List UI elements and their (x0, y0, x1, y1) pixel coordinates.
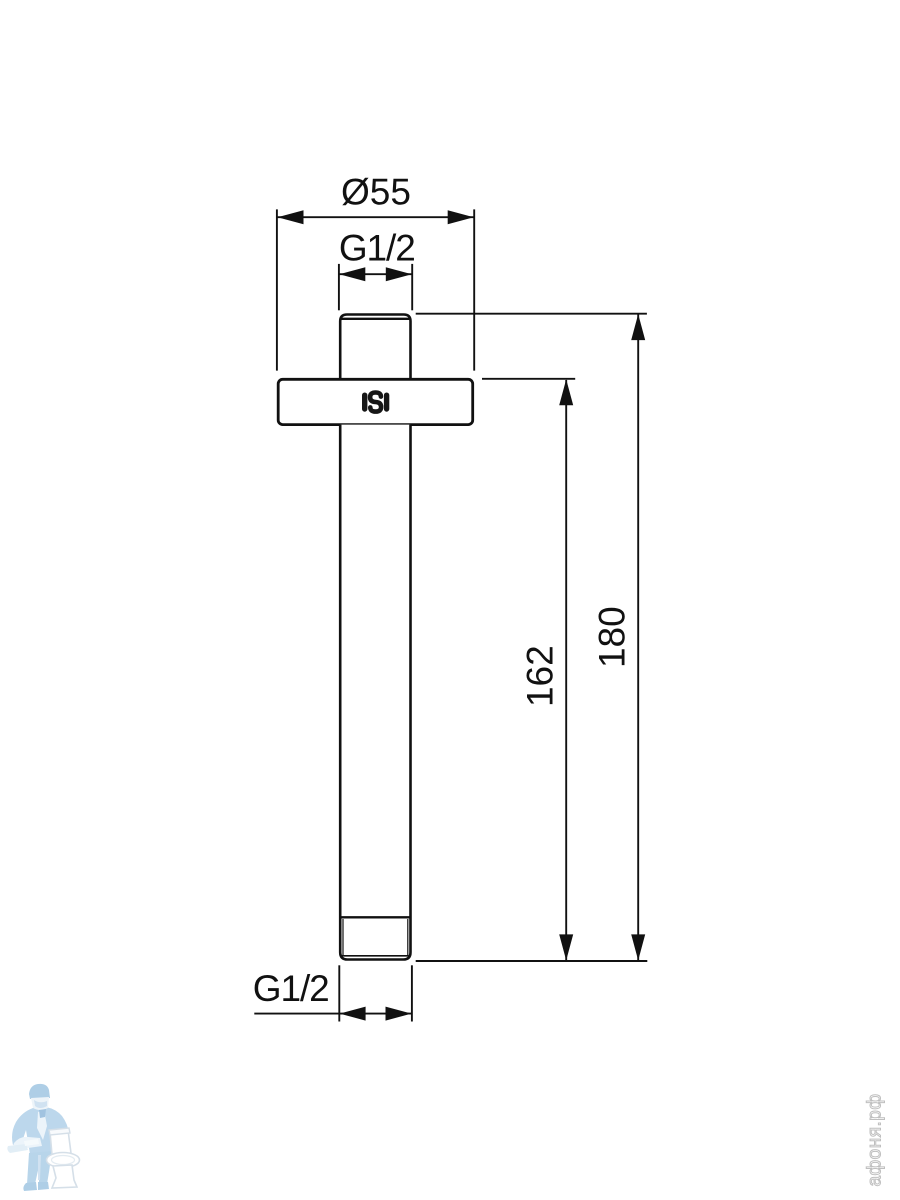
ISI logo letter I left (362, 395, 367, 409)
arrowhead G1/2 bottom left (340, 1007, 366, 1021)
extension line left of Ø55 (276, 209, 278, 370)
arrowhead 162 top (559, 379, 573, 405)
ISI logo letter I right (384, 395, 389, 409)
svg-text:162: 162 (519, 645, 560, 707)
dimension line Ø55 (277, 216, 474, 218)
plumber boot (23, 1182, 37, 1191)
extension line right of Ø55 (473, 209, 475, 370)
plumber jacket body (12, 1107, 70, 1154)
extension line right of top G1/2 (411, 264, 413, 310)
plumber bow tie (39, 1109, 46, 1118)
pipe bottom inner left edge (342, 919, 344, 955)
pipe bottom thread shoulder line (340, 916, 410, 918)
toilet tank (50, 1130, 71, 1155)
arrowhead G1/2 bottom right (386, 1007, 412, 1021)
dimension line 180 vertical (637, 315, 639, 961)
plumber trouser crease (38, 1155, 41, 1180)
plumber face (31, 1097, 49, 1110)
pipe top threaded nipple (340, 315, 410, 379)
extension line top for 180 dimension (416, 313, 647, 315)
flange plate (278, 379, 473, 424)
arrowhead 162 bottom (559, 934, 573, 960)
toilet pedestal (52, 1165, 77, 1188)
nipple inner top line (342, 318, 410, 320)
plumber forearm and hand (7, 1144, 28, 1153)
extension line bottom shared for 162 and 180 (416, 960, 648, 962)
extension line top for 162 dimension (482, 378, 575, 380)
plumber cap (29, 1084, 50, 1099)
svg-text:G1/2: G1/2 (339, 227, 415, 268)
plumber boot right (38, 1182, 49, 1190)
extension line left of bottom G1/2 (338, 965, 340, 1021)
svg-text:G1/2: G1/2 (253, 968, 329, 1009)
dimension line G1/2 top (339, 273, 412, 275)
dimension line 162 vertical (565, 380, 567, 960)
leader and dimension line G1/2 bottom (254, 1013, 412, 1015)
svg-text:Ø55: Ø55 (341, 172, 411, 213)
plumber face shading (34, 1100, 47, 1108)
watermark plumber logo bottom left (7, 1084, 79, 1191)
toilet bowl rim inner (52, 1156, 75, 1165)
toilet bowl rim (47, 1153, 80, 1168)
plumber jacket lapel highlight (37, 1110, 47, 1140)
svg-text:афоня.рф: афоня.рф (865, 1093, 886, 1186)
arrowhead Ø55 left (278, 210, 304, 224)
extension line left of top G1/2 (338, 264, 340, 310)
plumber tool in hand (24, 1139, 39, 1146)
arrowhead 180 bottom (631, 934, 645, 960)
plumber left sleeve (13, 1137, 42, 1150)
ISI logo letter S (370, 393, 381, 412)
pipe bottom inner right edge (407, 919, 409, 955)
pipe bottom inner line (342, 955, 409, 957)
svg-text:180: 180 (591, 606, 632, 668)
extension line right of bottom G1/2 (411, 965, 413, 1021)
toilet tank lid (49, 1128, 70, 1135)
arrowhead Ø55 right (448, 210, 474, 224)
arrowhead G1/2 top left (339, 267, 365, 281)
plumber trousers (27, 1151, 52, 1184)
pipe body (340, 425, 410, 960)
arrowhead G1/2 top right (386, 267, 412, 281)
arrowhead 180 top (631, 314, 645, 340)
